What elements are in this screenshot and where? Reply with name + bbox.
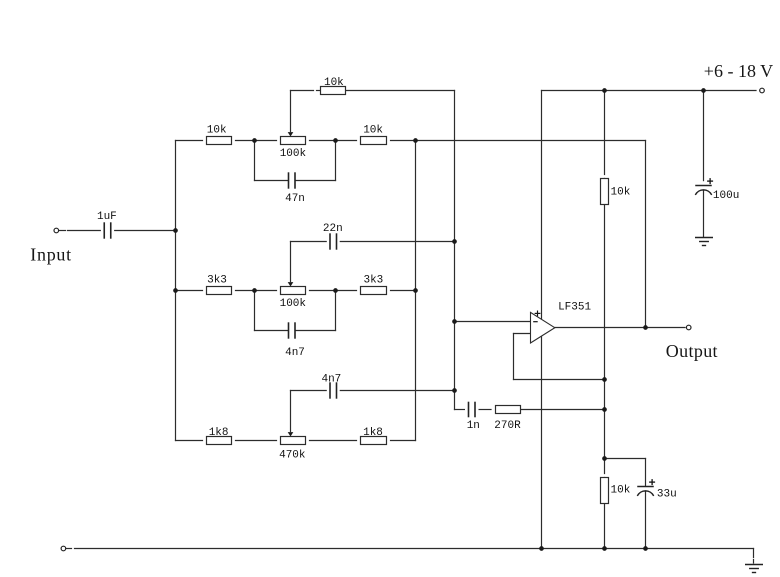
svg-text:33u: 33u [657,489,677,501]
svg-text:+6 - 18 V: +6 - 18 V [704,61,773,81]
svg-text:270R: 270R [494,420,521,432]
svg-text:4n7: 4n7 [321,373,341,385]
svg-text:3k3: 3k3 [207,274,227,286]
svg-text:1k8: 1k8 [209,427,229,439]
svg-text:10k: 10k [324,77,344,89]
svg-text:LF351: LF351 [558,301,591,313]
svg-text:100k: 100k [280,298,307,310]
svg-text:1k8: 1k8 [363,427,383,439]
svg-text:Input: Input [30,245,72,265]
svg-text:4n7: 4n7 [285,347,305,359]
svg-text:10k: 10k [611,187,631,199]
svg-text:10k: 10k [363,125,383,137]
svg-text:3k3: 3k3 [363,274,383,286]
svg-text:47n: 47n [285,193,305,205]
svg-text:10k: 10k [207,125,227,137]
svg-text:100k: 100k [280,148,307,160]
svg-text:100u: 100u [713,190,739,202]
svg-text:10k: 10k [611,485,631,497]
svg-text:1uF: 1uF [97,211,117,223]
svg-text:470k: 470k [279,450,306,462]
svg-text:Output: Output [666,341,718,361]
svg-text:22n: 22n [323,223,343,235]
svg-text:1n: 1n [467,420,480,432]
